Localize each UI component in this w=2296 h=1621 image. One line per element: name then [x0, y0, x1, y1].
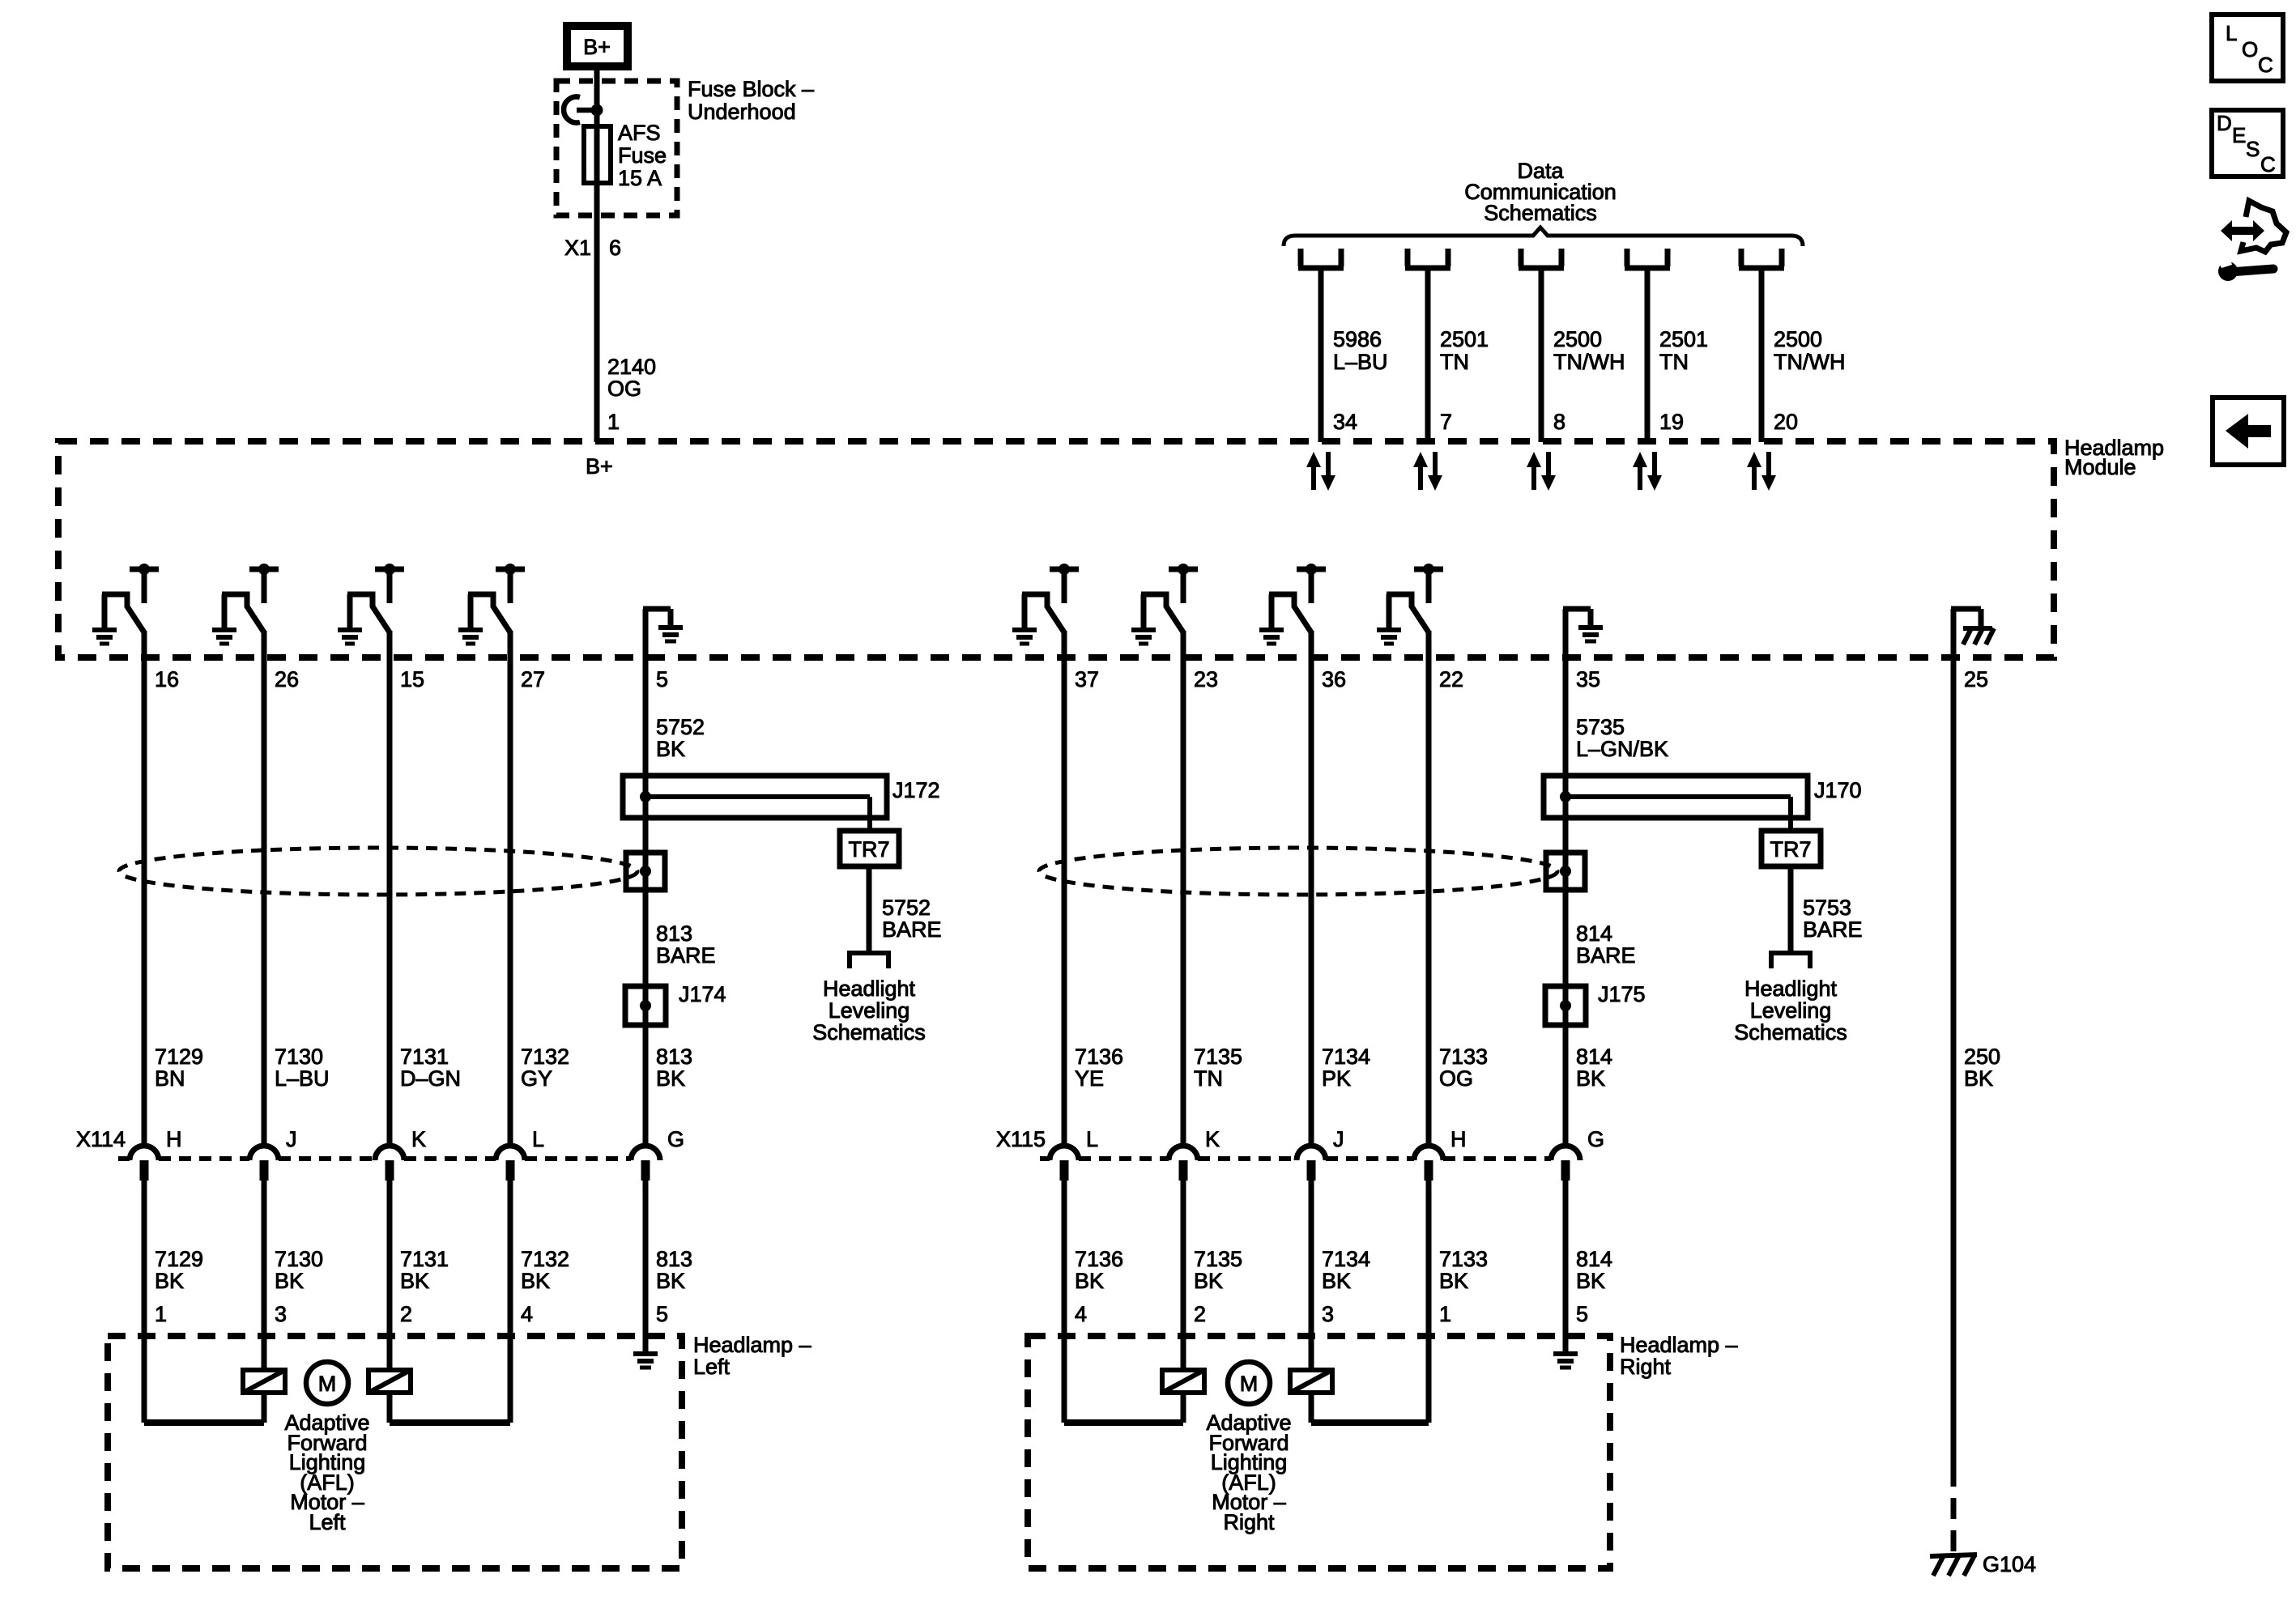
svg-text:26: 26	[275, 667, 299, 691]
svg-text:L: L	[1086, 1127, 1098, 1151]
ground in headlamp left (pin 5)	[633, 1354, 658, 1368]
wire 7132 BK X114 to headlamp left pin 4	[508, 1181, 513, 1344]
output driver switch to ground, module pin 26	[212, 564, 279, 644]
svg-text:7: 7	[1440, 410, 1452, 434]
wire pin4 to motor (right)	[1062, 1344, 1067, 1423]
wire 7129 BK X114 to headlamp left pin 1	[142, 1181, 147, 1344]
bidirectional data arrows pin 8	[1527, 452, 1556, 491]
svg-text:M: M	[1240, 1372, 1259, 1396]
svg-text:16: 16	[155, 667, 179, 691]
output driver switch to ground, module pin 22	[1377, 564, 1443, 644]
svg-text:Right: Right	[1223, 1510, 1275, 1534]
svg-text:BARE: BARE	[656, 943, 716, 968]
fuse block - underhood dashed box	[556, 81, 677, 215]
off-page connector to headlight leveling schematics (left)	[847, 953, 891, 968]
wire 5753 BARE	[1788, 866, 1794, 953]
connector X114 terminal J	[249, 1146, 279, 1181]
svg-text:22: 22	[1439, 667, 1463, 691]
wire 7136 BK X115 to headlamp right pin 4	[1062, 1181, 1067, 1344]
svg-text:K: K	[1205, 1127, 1220, 1151]
svg-text:YE: YE	[1075, 1066, 1104, 1091]
svg-text:Schematics: Schematics	[812, 1020, 926, 1045]
svg-text:OG: OG	[607, 377, 641, 401]
svg-text:20: 20	[1774, 410, 1798, 434]
svg-text:36: 36	[1322, 667, 1346, 691]
svg-text:Headlight: Headlight	[1744, 976, 1838, 1001]
svg-text:Leveling: Leveling	[1750, 998, 1832, 1023]
svg-text:7136: 7136	[1075, 1247, 1123, 1271]
svg-text:23: 23	[1194, 667, 1218, 691]
fuse AFS 15A element hook and junction	[564, 97, 597, 123]
svg-text:7131: 7131	[400, 1045, 449, 1069]
svg-text:C: C	[2258, 53, 2273, 77]
shield ellipse around right harness	[1039, 848, 1557, 895]
svg-text:7130: 7130	[275, 1247, 323, 1271]
svg-text:H: H	[1450, 1127, 1467, 1151]
svg-text:BK: BK	[1576, 1066, 1605, 1091]
wire 7135 BK X115 to headlamp right pin 2	[1181, 1181, 1186, 1344]
svg-text:BK: BK	[1075, 1269, 1104, 1293]
connector X114 terminal L	[496, 1146, 525, 1181]
svg-text:6: 6	[609, 236, 621, 260]
svg-text:Headlamp –: Headlamp –	[693, 1333, 811, 1357]
connector X114 terminal K	[375, 1146, 404, 1181]
svg-text:5753: 5753	[1803, 896, 1851, 920]
svg-text:BK: BK	[1439, 1269, 1468, 1293]
wire B+ to fuse block	[594, 70, 600, 113]
output driver switch to ground, module pin 27	[458, 564, 525, 644]
headlamp module dashed box	[58, 441, 2054, 657]
wire pin4 to motor (left)	[508, 1344, 513, 1423]
svg-text:15 A: 15 A	[618, 166, 662, 190]
transient suppressor TR7 (left)	[840, 831, 899, 866]
svg-text:G: G	[667, 1127, 684, 1151]
chassis ground hatch symbol	[1963, 626, 1992, 631]
off-page connector to data communication, circuit 2501	[1405, 249, 1450, 268]
svg-text:5: 5	[1576, 1302, 1588, 1326]
wire 2500 TN/WH	[1759, 270, 1765, 442]
svg-text:C: C	[2260, 152, 2276, 177]
output driver switch to ground, module pin 23	[1131, 564, 1198, 644]
svg-text:BK: BK	[521, 1269, 550, 1293]
svg-text:5986: 5986	[1333, 327, 1382, 351]
wire 2500 TN/WH	[1539, 270, 1544, 442]
svg-text:B+: B+	[586, 454, 613, 479]
svg-text:TN/WH: TN/WH	[1553, 350, 1625, 374]
svg-text:X114: X114	[76, 1127, 126, 1151]
bidirectional data arrows pin 19	[1633, 452, 1662, 491]
svg-text:BK: BK	[656, 1269, 685, 1293]
svg-text:7134: 7134	[1322, 1247, 1370, 1271]
wire 7132 GY module to X114	[508, 631, 513, 1146]
svg-text:BN: BN	[155, 1066, 185, 1091]
svg-text:2501: 2501	[1659, 327, 1708, 351]
wire 7133 OG module to X115	[1426, 631, 1432, 1146]
svg-text:7132: 7132	[521, 1045, 569, 1069]
svg-text:L–GN/BK: L–GN/BK	[1576, 737, 1668, 761]
wire 7133 BK X115 to headlamp right pin 1	[1426, 1181, 1432, 1344]
svg-text:5: 5	[656, 1302, 668, 1326]
svg-text:814: 814	[1576, 921, 1612, 946]
svg-text:BARE: BARE	[1576, 943, 1636, 968]
connector X115 terminal K	[1169, 1146, 1198, 1181]
off-page connector to headlight leveling schematics (right)	[1769, 953, 1813, 968]
AFL motor right	[1228, 1362, 1270, 1404]
svg-text:GY: GY	[521, 1066, 552, 1091]
svg-text:15: 15	[400, 667, 424, 691]
splice J174	[625, 986, 666, 1025]
wire 813 BK X114 to headlamp left pin 5	[643, 1181, 649, 1354]
svg-text:TN/WH: TN/WH	[1774, 350, 1845, 374]
svg-text:TN: TN	[1659, 350, 1689, 374]
svg-text:813: 813	[656, 921, 692, 946]
wire 7130 L&#8211;BU module to X114	[262, 631, 267, 1146]
X115 connector dashed line	[1040, 1156, 1050, 1161]
svg-text:BK: BK	[1576, 1269, 1605, 1293]
svg-text:813: 813	[656, 1045, 692, 1069]
ground G104 chassis symbol	[1930, 1555, 1977, 1556]
svg-text:2500: 2500	[1774, 327, 1822, 351]
svg-text:X115: X115	[996, 1127, 1046, 1151]
svg-text:BK: BK	[1964, 1066, 1993, 1091]
wire 2501 TN	[1425, 270, 1431, 442]
svg-text:Fuse Block –: Fuse Block –	[688, 77, 814, 101]
connector X114 terminal H	[130, 1146, 159, 1181]
svg-text:27: 27	[521, 667, 545, 691]
svg-text:7129: 7129	[155, 1045, 203, 1069]
wire 7136 YE module to X115	[1062, 631, 1067, 1146]
svg-text:L: L	[2226, 21, 2237, 45]
svg-text:37: 37	[1075, 667, 1099, 691]
svg-text:G104: G104	[1983, 1552, 2036, 1576]
wire 7134 PK module to X115	[1309, 631, 1314, 1146]
fuse AFS Fuse 15 A body	[594, 110, 600, 228]
internal chassis ground reference, module pin 25	[1951, 609, 1957, 660]
internal ground reference, module pin 5	[643, 609, 649, 660]
splice J175	[1545, 986, 1586, 1025]
svg-text:BK: BK	[656, 737, 685, 761]
svg-text:3: 3	[1322, 1302, 1334, 1326]
svg-text:BK: BK	[400, 1269, 429, 1293]
svg-text:TR7: TR7	[1770, 837, 1811, 862]
svg-text:BARE: BARE	[1803, 917, 1863, 942]
svg-text:BK: BK	[1322, 1269, 1351, 1293]
svg-text:7131: 7131	[400, 1247, 449, 1271]
svg-text:AFS: AFS	[618, 121, 661, 145]
svg-text:H: H	[166, 1127, 182, 1151]
splice pack J170	[1544, 776, 1808, 818]
wire 7131 BK X114 to headlamp left pin 2	[387, 1181, 393, 1344]
wire pin1 to motor (right)	[1426, 1344, 1432, 1423]
svg-text:BK: BK	[1194, 1269, 1223, 1293]
wire 7135 TN module to X115	[1181, 631, 1186, 1146]
svg-text:PK: PK	[1322, 1066, 1351, 1091]
output driver switch to ground, module pin 16	[92, 564, 159, 644]
svg-text:2: 2	[1194, 1302, 1206, 1326]
wire 7134 BK X115 to headlamp right pin 3	[1309, 1181, 1314, 1344]
position sensor (right motor, pin 3 side)	[1309, 1344, 1314, 1423]
svg-text:250: 250	[1964, 1045, 2000, 1069]
svg-text:Left: Left	[693, 1355, 731, 1379]
transient suppressor TR7 (right)	[1761, 831, 1821, 866]
svg-text:Left: Left	[309, 1510, 346, 1534]
svg-text:Right: Right	[1620, 1355, 1672, 1379]
svg-text:19: 19	[1659, 410, 1684, 434]
svg-text:BARE: BARE	[882, 917, 942, 942]
svg-text:Headlight: Headlight	[823, 976, 916, 1001]
svg-text:J170: J170	[1814, 778, 1862, 802]
svg-text:J: J	[1333, 1127, 1344, 1151]
svg-text:Schematics: Schematics	[1734, 1020, 1847, 1045]
svg-text:D: D	[2217, 111, 2232, 135]
svg-text:7136: 7136	[1075, 1045, 1123, 1069]
bidirectional data arrows pin 34	[1306, 452, 1335, 491]
svg-text:1: 1	[607, 410, 620, 434]
svg-text:Schematics: Schematics	[1484, 201, 1597, 225]
LOC reference box icon	[2212, 15, 2283, 81]
wire pin1 to motor (left)	[142, 1344, 147, 1423]
AFL motor left	[306, 1362, 348, 1404]
svg-text:TN: TN	[1194, 1066, 1223, 1091]
svg-text:S: S	[2246, 137, 2260, 161]
svg-text:M: M	[318, 1372, 337, 1396]
svg-text:7130: 7130	[275, 1045, 323, 1069]
wire 5752 BK / 813 from module pin 5	[643, 657, 649, 1146]
svg-text:B+: B+	[583, 35, 611, 59]
splice pack J172	[623, 776, 887, 818]
svg-text:2501: 2501	[1440, 327, 1489, 351]
shield drain attachment on wire 814	[1546, 853, 1585, 890]
svg-text:D–GN: D–GN	[400, 1066, 461, 1091]
svg-text:TR7: TR7	[848, 837, 889, 862]
connector X115 terminal J	[1297, 1146, 1326, 1181]
svg-text:1: 1	[1439, 1302, 1451, 1326]
svg-text:814: 814	[1576, 1045, 1612, 1069]
svg-text:Leveling: Leveling	[829, 998, 910, 1023]
svg-text:K: K	[411, 1127, 426, 1151]
wire 7131 D&#8211;GN module to X114	[387, 631, 393, 1146]
svg-text:G: G	[1587, 1127, 1604, 1151]
wire 7130 BK X114 to headlamp left pin 3	[262, 1181, 267, 1344]
svg-text:814: 814	[1576, 1247, 1612, 1271]
svg-text:L–BU: L–BU	[275, 1066, 330, 1091]
svg-text:Fuse: Fuse	[618, 143, 667, 168]
connector X115 terminal H	[1414, 1146, 1443, 1181]
wire 5986 L&#8211;BU	[1318, 270, 1324, 442]
svg-text:2: 2	[400, 1302, 412, 1326]
svg-text:5752: 5752	[656, 715, 705, 739]
bidirectional data arrows pin 20	[1747, 452, 1776, 491]
svg-text:BK: BK	[656, 1066, 685, 1091]
svg-text:34: 34	[1333, 410, 1357, 434]
svg-text:5752: 5752	[882, 896, 931, 920]
svg-text:7135: 7135	[1194, 1247, 1242, 1271]
off-page connector to data communication, circuit 2500	[1519, 249, 1564, 268]
svg-text:TN: TN	[1440, 350, 1469, 374]
connector repair tool icon	[2217, 201, 2286, 281]
bidirectional data arrows pin 7	[1413, 452, 1442, 491]
headlamp right dashed box	[1028, 1336, 1610, 1568]
svg-text:4: 4	[1075, 1302, 1087, 1326]
position sensor (left motor, pin 2 side)	[387, 1344, 393, 1423]
svg-text:O: O	[2242, 37, 2258, 62]
power feed B+ terminal box	[567, 26, 628, 66]
wire 7129 BN module to X114	[142, 631, 147, 1146]
svg-text:Headlamp –: Headlamp –	[1620, 1333, 1738, 1357]
DESC reference box icon	[2212, 110, 2283, 177]
svg-text:7135: 7135	[1194, 1045, 1242, 1069]
wire 2501 TN	[1645, 270, 1651, 442]
wire 5752 BARE	[867, 866, 872, 953]
svg-text:J175: J175	[1598, 982, 1646, 1006]
svg-text:OG: OG	[1439, 1066, 1473, 1091]
off-page connector to data communication, circuit 5986	[1298, 249, 1344, 268]
svg-text:Underhood: Underhood	[688, 100, 796, 124]
svg-text:7134: 7134	[1322, 1045, 1370, 1069]
svg-text:Module: Module	[2064, 455, 2136, 479]
svg-text:5735: 5735	[1576, 715, 1625, 739]
position sensor (left motor, pin 3 side)	[262, 1344, 267, 1423]
connector X115 terminal L	[1050, 1146, 1079, 1181]
internal ground reference, module pin 35	[1563, 609, 1569, 660]
connector X114 terminal G	[631, 1146, 660, 1181]
output driver switch to ground, module pin 15	[338, 564, 404, 644]
headlamp left dashed box	[108, 1336, 682, 1568]
shield drain attachment on wire 813	[626, 853, 665, 890]
svg-text:J172: J172	[892, 778, 940, 802]
svg-text:L–BU: L–BU	[1333, 350, 1388, 374]
svg-text:E: E	[2232, 123, 2246, 147]
svg-text:7133: 7133	[1439, 1247, 1488, 1271]
svg-text:1: 1	[155, 1302, 167, 1326]
svg-text:25: 25	[1964, 667, 1988, 691]
output driver switch to ground, module pin 36	[1259, 564, 1326, 644]
svg-text:X1: X1	[564, 236, 591, 260]
svg-text:3: 3	[275, 1302, 287, 1326]
svg-text:J: J	[286, 1127, 297, 1151]
position sensor (right motor, pin 2 side)	[1181, 1344, 1186, 1423]
off-page connector to data communication, circuit 2500	[1739, 249, 1784, 268]
svg-text:L: L	[532, 1127, 544, 1151]
brace over data links	[1284, 228, 1803, 246]
connector X115 terminal G	[1551, 1146, 1580, 1181]
off-page connector to data communication, circuit 2501	[1625, 249, 1670, 268]
svg-text:35: 35	[1576, 667, 1600, 691]
svg-text:2500: 2500	[1553, 327, 1602, 351]
shield ellipse around left harness	[119, 848, 637, 895]
wire 250 BK from module pin 25 to G104	[1951, 657, 1957, 1466]
svg-text:813: 813	[656, 1247, 692, 1271]
X114 connector dashed line	[118, 1156, 130, 1161]
back arrow navigation box icon	[2213, 398, 2284, 465]
wire 5735 L-GN/BK / 814 from module pin 35	[1563, 657, 1569, 1146]
ground in headlamp right (pin 5)	[1553, 1354, 1578, 1368]
svg-text:8: 8	[1553, 410, 1565, 434]
svg-text:5: 5	[656, 667, 668, 691]
svg-text:2140: 2140	[607, 355, 656, 379]
svg-text:BK: BK	[155, 1269, 184, 1293]
svg-text:7133: 7133	[1439, 1045, 1488, 1069]
output driver switch to ground, module pin 37	[1012, 564, 1079, 644]
svg-text:7132: 7132	[521, 1247, 569, 1271]
svg-text:4: 4	[521, 1302, 533, 1326]
svg-text:J174: J174	[679, 982, 726, 1006]
svg-text:BK: BK	[275, 1269, 304, 1293]
svg-text:7129: 7129	[155, 1247, 203, 1271]
wire 2140 OG from fuse to headlamp module pin 1	[594, 215, 600, 442]
wire 814 BK X115 to headlamp right pin 5	[1563, 1181, 1569, 1354]
